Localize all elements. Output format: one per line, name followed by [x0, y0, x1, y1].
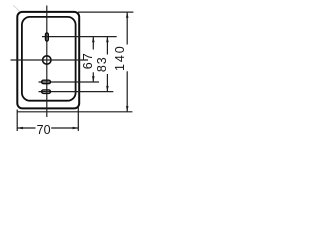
- center hole circle: [43, 56, 51, 64]
- slot 2 centerline / extension: [39, 91, 114, 93]
- arrow 83 bottom: [106, 86, 109, 92]
- dimension line 67: [92, 37, 94, 50]
- svg-text:70: 70: [37, 123, 51, 137]
- top extension line (overall height 140): [78, 11, 133, 13]
- svg-text:67: 67: [81, 51, 95, 69]
- arrow 67 bottom: [92, 76, 95, 82]
- vertical centerline: [46, 6, 48, 118]
- arrow 140 bottom: [126, 106, 129, 112]
- slot 2 (lower mounting slot): [42, 90, 51, 94]
- dimension line 83: [106, 37, 108, 55]
- plate inner outline: [22, 17, 76, 101]
- arrow 83 top: [106, 37, 109, 43]
- dimension line 70: [17, 127, 35, 129]
- plate outer outline: [17, 12, 79, 109]
- bottom lip / base line and 140 lower extension: [17, 111, 132, 113]
- arrow 140 top: [126, 12, 129, 18]
- width extension line left: [16, 110, 18, 132]
- svg-text:83: 83: [95, 56, 109, 72]
- width extension line right: [77, 106, 79, 131]
- slot 1 (upper mounting slot): [42, 80, 51, 84]
- arrow 70 left: [17, 127, 23, 130]
- arrow 70 right: [73, 127, 79, 130]
- circle horizontal centerline: [11, 59, 89, 61]
- svg-text:140: 140: [113, 44, 127, 71]
- top slot (keyhole): [45, 33, 48, 41]
- dimension line 140: [126, 12, 128, 44]
- slot 1 centerline / extension: [39, 81, 100, 83]
- arrow 67 top: [92, 37, 95, 43]
- corner leader mark top-left: [13, 5, 20, 11]
- top slot centerline / extension to dims: [42, 36, 117, 38]
